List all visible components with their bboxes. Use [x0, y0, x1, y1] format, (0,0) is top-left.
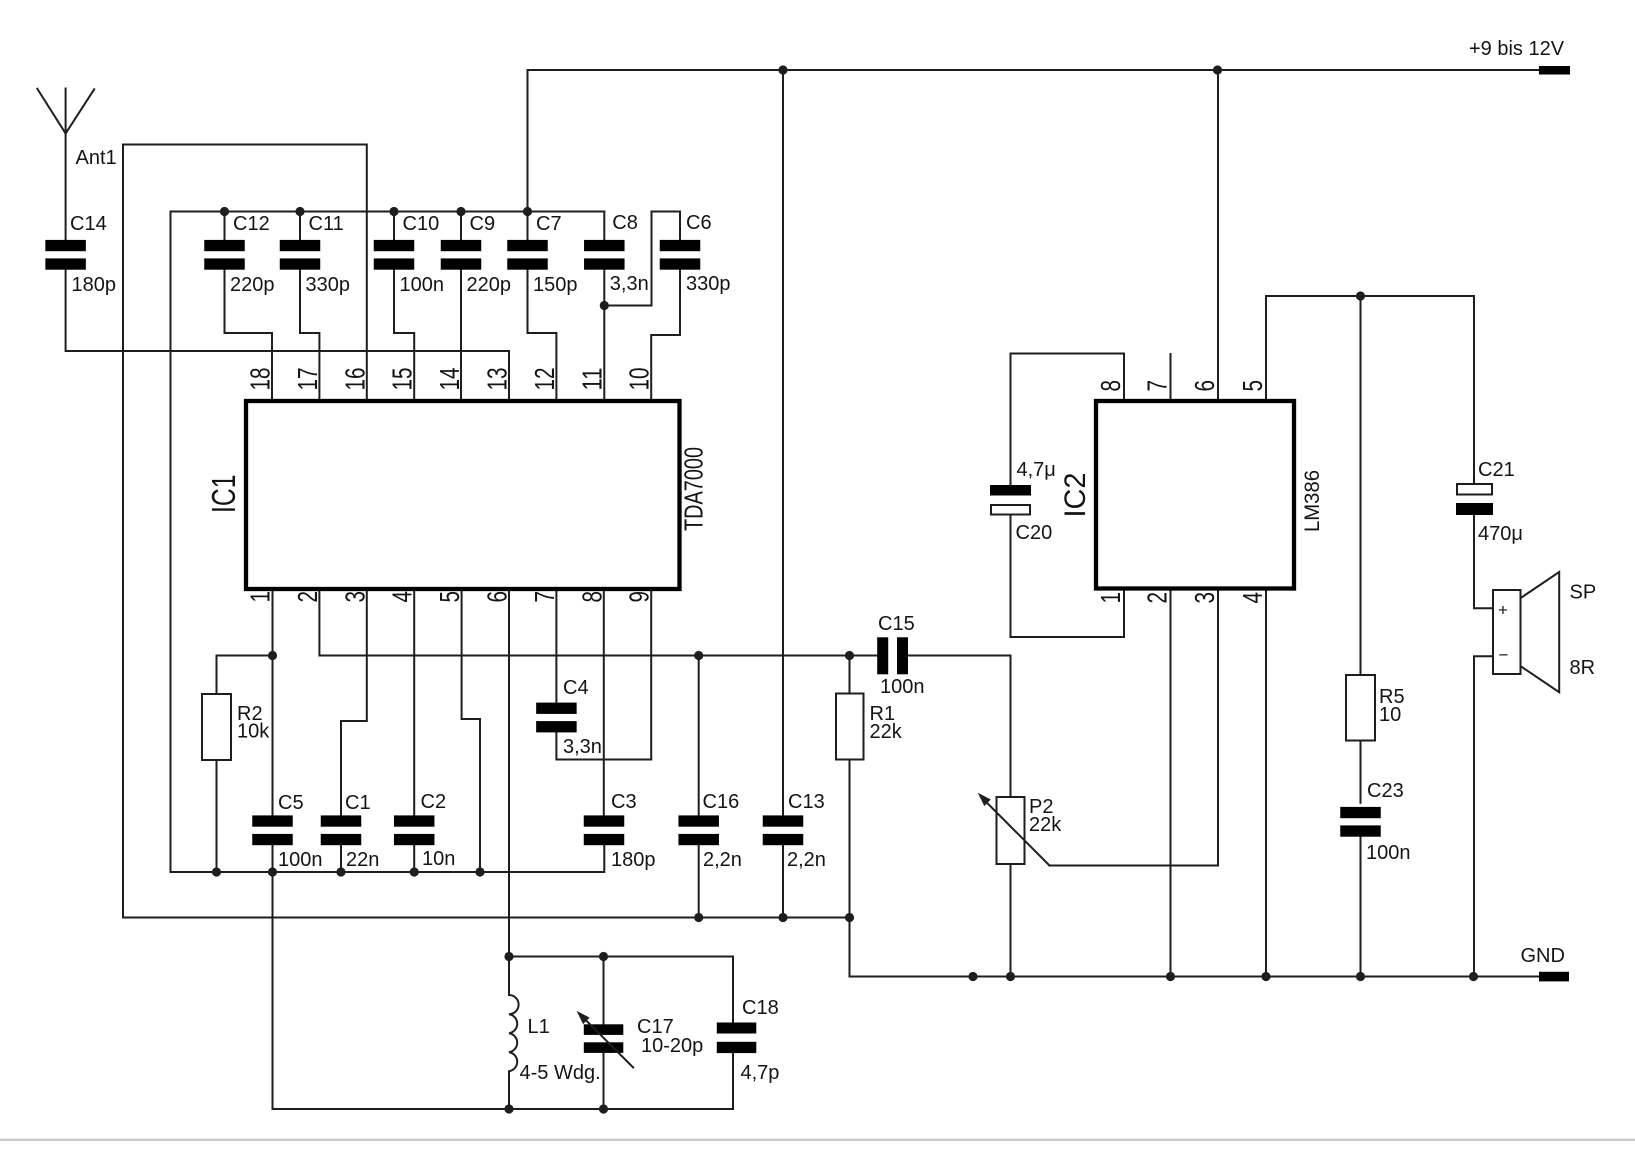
- svg-text:8: 8: [576, 591, 607, 603]
- svg-text:1: 1: [1095, 592, 1126, 604]
- svg-text:C14: C14: [70, 213, 107, 235]
- svg-text:180p: 180p: [611, 849, 656, 871]
- svg-text:180p: 180p: [72, 274, 117, 296]
- svg-text:7: 7: [1142, 380, 1173, 392]
- svg-text:C7: C7: [536, 213, 562, 235]
- svg-text:220p: 220p: [230, 274, 275, 296]
- svg-text:+: +: [1498, 601, 1508, 620]
- svg-text:IC1: IC1: [205, 475, 242, 514]
- svg-text:100n: 100n: [1366, 842, 1411, 864]
- svg-text:C16: C16: [703, 791, 740, 813]
- svg-text:C23: C23: [1367, 780, 1404, 802]
- svg-text:11: 11: [576, 368, 607, 391]
- svg-text:C15: C15: [878, 613, 915, 635]
- svg-text:3,3n: 3,3n: [563, 736, 602, 758]
- svg-text:10-20p: 10-20p: [641, 1035, 703, 1057]
- svg-text:15: 15: [387, 368, 418, 391]
- svg-text:C1: C1: [345, 792, 371, 814]
- svg-text:6: 6: [482, 591, 513, 603]
- svg-text:2: 2: [292, 591, 323, 603]
- svg-text:330p: 330p: [306, 274, 351, 296]
- svg-text:4: 4: [387, 591, 418, 603]
- svg-text:12: 12: [529, 368, 560, 391]
- svg-text:1: 1: [245, 591, 276, 603]
- svg-text:−: −: [1499, 646, 1509, 665]
- svg-text:C6: C6: [686, 212, 712, 234]
- svg-text:C12: C12: [233, 213, 270, 235]
- svg-text:LM386: LM386: [1301, 470, 1324, 532]
- svg-text:C3: C3: [611, 791, 637, 813]
- svg-text:TDA7000: TDA7000: [679, 447, 709, 531]
- svg-text:6: 6: [1189, 380, 1220, 392]
- svg-text:C8: C8: [612, 212, 638, 234]
- svg-text:GND: GND: [1521, 945, 1565, 967]
- svg-text:SP: SP: [1570, 582, 1597, 604]
- svg-text:C9: C9: [470, 213, 496, 235]
- svg-text:3: 3: [339, 591, 370, 603]
- svg-text:22n: 22n: [346, 849, 379, 871]
- svg-text:8: 8: [1095, 380, 1126, 392]
- svg-text:330p: 330p: [686, 273, 731, 295]
- svg-text:+9 bis 12V: +9 bis 12V: [1469, 38, 1565, 60]
- svg-text:5: 5: [1237, 380, 1268, 392]
- svg-text:C13: C13: [788, 791, 825, 813]
- svg-text:18: 18: [245, 368, 276, 391]
- svg-text:22k: 22k: [870, 721, 903, 743]
- svg-text:8R: 8R: [1570, 657, 1596, 679]
- svg-text:3: 3: [1189, 592, 1220, 604]
- svg-text:22k: 22k: [1029, 814, 1062, 836]
- svg-text:10: 10: [624, 368, 655, 391]
- svg-text:4,7p: 4,7p: [741, 1062, 780, 1084]
- svg-text:C5: C5: [278, 792, 304, 814]
- svg-text:IC2: IC2: [1059, 473, 1092, 518]
- svg-text:10n: 10n: [422, 848, 455, 870]
- svg-text:10: 10: [1379, 704, 1401, 726]
- svg-text:4: 4: [1237, 592, 1268, 604]
- svg-text:16: 16: [339, 368, 370, 391]
- svg-text:14: 14: [434, 368, 465, 391]
- svg-text:3,3n: 3,3n: [610, 273, 649, 295]
- svg-text:7: 7: [529, 591, 560, 603]
- svg-text:150p: 150p: [533, 274, 578, 296]
- svg-text:9: 9: [624, 591, 655, 603]
- svg-text:C20: C20: [1016, 522, 1053, 544]
- svg-text:L1: L1: [528, 1016, 550, 1038]
- svg-text:5: 5: [434, 591, 465, 603]
- svg-text:100n: 100n: [880, 676, 925, 698]
- svg-text:C18: C18: [742, 997, 779, 1019]
- svg-text:100n: 100n: [400, 274, 445, 296]
- svg-text:17: 17: [292, 368, 323, 391]
- svg-text:C21: C21: [1478, 459, 1515, 481]
- svg-text:470μ: 470μ: [1478, 523, 1523, 545]
- svg-text:2,2n: 2,2n: [703, 849, 742, 871]
- svg-text:100n: 100n: [278, 849, 323, 871]
- svg-text:10k: 10k: [237, 721, 270, 743]
- svg-text:C11: C11: [309, 213, 344, 235]
- svg-text:2,2n: 2,2n: [787, 849, 826, 871]
- svg-text:4-5 Wdg.: 4-5 Wdg.: [520, 1062, 601, 1084]
- svg-text:C10: C10: [403, 213, 440, 235]
- svg-text:2: 2: [1142, 592, 1173, 604]
- svg-text:C2: C2: [421, 791, 447, 813]
- svg-text:C4: C4: [563, 677, 589, 699]
- svg-text:13: 13: [482, 368, 513, 391]
- svg-text:220p: 220p: [467, 274, 512, 296]
- svg-text:4,7μ: 4,7μ: [1017, 459, 1056, 481]
- svg-text:Ant1: Ant1: [76, 147, 117, 169]
